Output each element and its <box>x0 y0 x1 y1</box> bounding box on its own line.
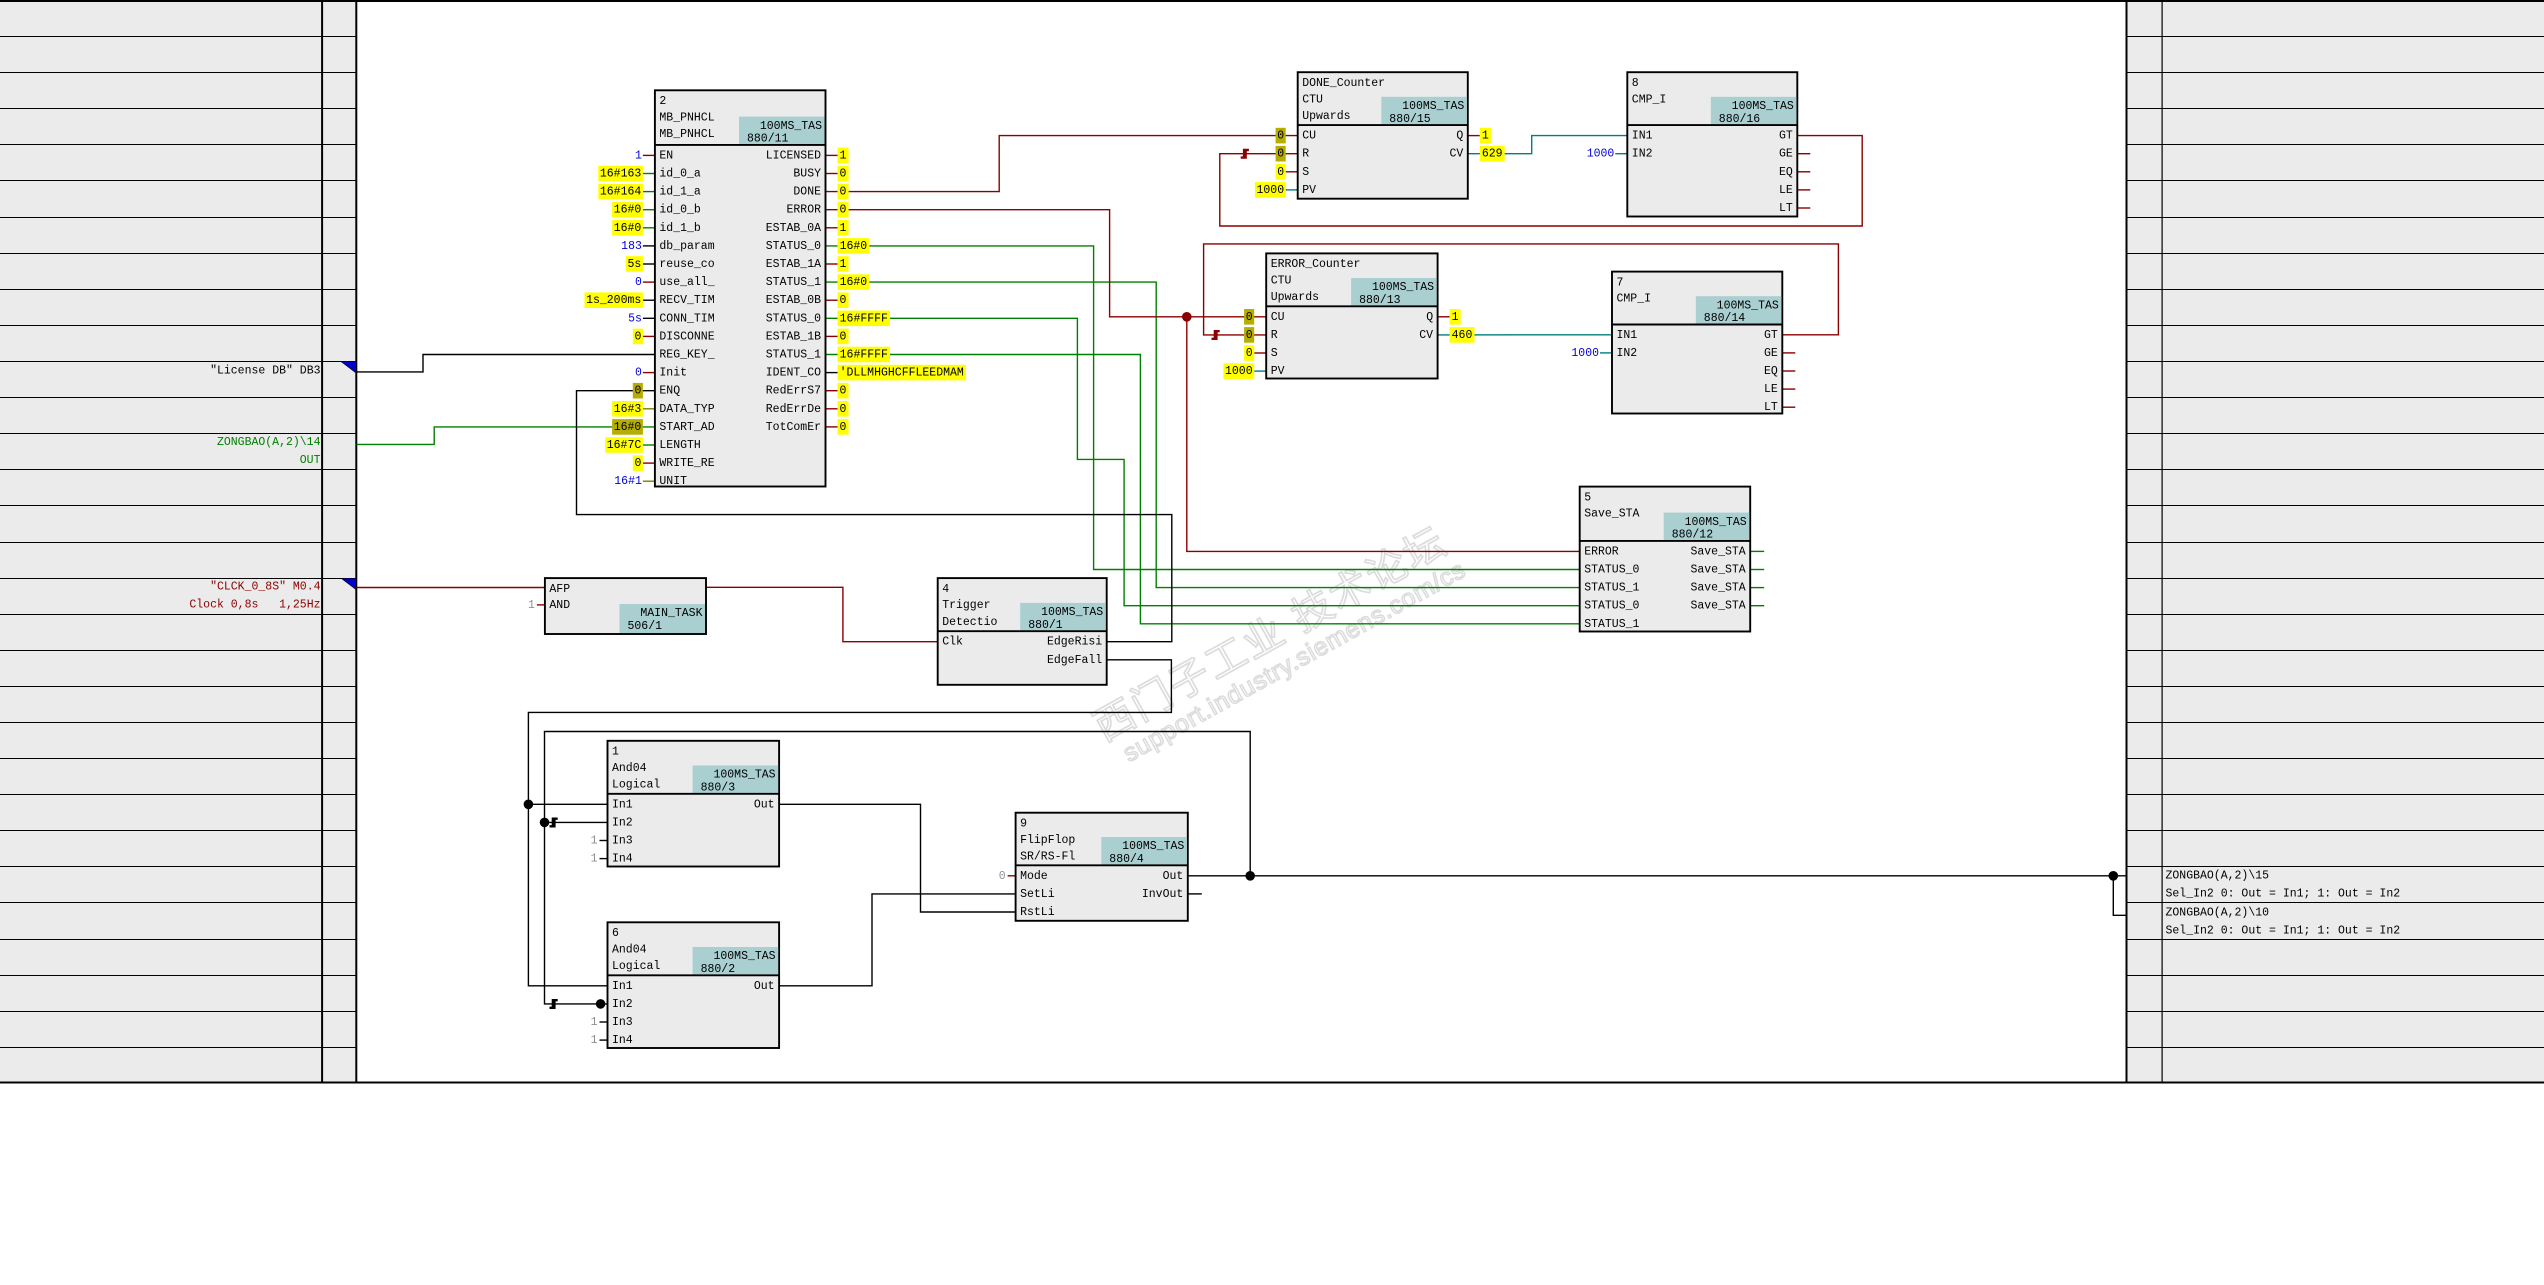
svg-text:1: 1 <box>840 222 847 235</box>
svg-text:CONN_TIM: CONN_TIM <box>659 312 714 325</box>
svg-text:ERROR_Counter: ERROR_Counter <box>1271 258 1361 271</box>
svg-text:EQ: EQ <box>1764 365 1778 378</box>
svg-text:8: 8 <box>1632 77 1639 90</box>
svg-text:Save_STA: Save_STA <box>1690 545 1745 558</box>
svg-text:InvOut: InvOut <box>1142 888 1183 901</box>
svg-text:IN1: IN1 <box>1632 130 1653 143</box>
svg-text:STATUS_0: STATUS_0 <box>1584 564 1639 577</box>
function block 2 MB_PNHCL <box>655 90 826 488</box>
value id_0_a 16#163 <box>598 166 643 182</box>
svg-text:id_1_b: id_1_b <box>659 222 701 235</box>
svg-text:0: 0 <box>840 168 847 181</box>
stub ERROR_Counter.S <box>1254 352 1266 354</box>
wire STATUS_1 (16#FFFF) to Save_STA.STATUS_1 <box>826 355 1580 624</box>
stub reuse_co <box>643 263 655 265</box>
stub FlipFlop.Mode <box>1008 875 1016 877</box>
svg-text:In1: In1 <box>612 980 633 993</box>
stub CMP_I7.IN2 <box>1600 352 1612 354</box>
svg-text:0: 0 <box>1246 329 1253 342</box>
stubs CMP_I7 GE EQ LE LT <box>1782 353 1795 407</box>
svg-text:CMP_I: CMP_I <box>1632 93 1667 106</box>
svg-text:183: 183 <box>621 240 642 253</box>
svg-text:0: 0 <box>634 330 641 343</box>
wire License DB margin to REG_KEY_ <box>356 355 655 372</box>
svg-text:16#164: 16#164 <box>600 186 642 199</box>
stub UNIT <box>643 480 655 482</box>
svg-text:db_param: db_param <box>659 240 714 253</box>
wire STATUS_0 (16#0) to Save_STA.STATUS_0 <box>826 246 1580 570</box>
svg-text:CMP_I: CMP_I <box>1617 293 1652 306</box>
svg-text:UNIT: UNIT <box>659 475 687 488</box>
svg-text:And04: And04 <box>612 762 647 775</box>
stub CONN_TIM <box>643 317 655 319</box>
svg-text:ENQ: ENQ <box>659 385 680 398</box>
svg-text:IDENT_CO: IDENT_CO <box>766 367 821 380</box>
value LICENSED 1 <box>838 148 849 164</box>
svg-text:0: 0 <box>840 294 847 307</box>
svg-text:16#0: 16#0 <box>840 276 868 289</box>
svg-text:LT: LT <box>1764 401 1778 414</box>
svg-text:ESTAB_0A: ESTAB_0A <box>766 222 821 235</box>
svg-text:DONE: DONE <box>793 186 821 199</box>
junction dot In2 And04 6 <box>596 999 606 1009</box>
stub ERROR_Counter.Q <box>1438 316 1450 318</box>
svg-text:880/14: 880/14 <box>1704 312 1746 325</box>
tick marker DONE_Counter.R <box>1241 149 1249 159</box>
sheetbar triangle License DB <box>341 362 356 374</box>
wire ZONGBAO margin to START_AD <box>356 427 655 445</box>
svg-text:BUSY: BUSY <box>793 168 821 181</box>
value ESTAB_0A 1 <box>838 220 849 236</box>
svg-text:880/2: 880/2 <box>701 963 736 976</box>
value START_AD 16#0 <box>612 419 643 435</box>
svg-text:In3: In3 <box>612 1016 633 1029</box>
svg-text:In3: In3 <box>612 835 633 848</box>
svg-text:506/1: 506/1 <box>628 620 663 633</box>
svg-text:START_AD: START_AD <box>659 421 714 434</box>
svg-text:S: S <box>1302 166 1309 179</box>
svg-text:100MS_TAS: 100MS_TAS <box>713 769 775 782</box>
svg-text:CU: CU <box>1302 130 1316 143</box>
svg-text:Save_STA: Save_STA <box>1690 564 1745 577</box>
svg-text:LENGTH: LENGTH <box>659 439 700 452</box>
svg-text:0: 0 <box>634 457 641 470</box>
value id_1_b 16#0 <box>612 220 643 236</box>
svg-text:0: 0 <box>635 367 642 380</box>
svg-text:GT: GT <box>1779 130 1793 143</box>
svg-text:0: 0 <box>840 403 847 416</box>
svg-text:0: 0 <box>999 870 1006 883</box>
wire CMP_I7.GT feedback to ERROR_Counter.R <box>1204 244 1839 335</box>
svg-text:100MS_TAS: 100MS_TAS <box>1122 840 1184 853</box>
svg-text:And04: And04 <box>612 943 647 956</box>
svg-text:In4: In4 <box>612 1034 633 1047</box>
svg-text:ESTAB_1B: ESTAB_1B <box>766 330 821 343</box>
svg-text:LT: LT <box>1779 202 1793 215</box>
svg-text:SetLi: SetLi <box>1020 888 1055 901</box>
svg-text:IN2: IN2 <box>1617 347 1638 360</box>
stub id_0_a <box>643 173 655 175</box>
stub id_0_b <box>643 209 655 211</box>
svg-text:1s_200ms: 1s_200ms <box>586 294 641 307</box>
svg-text:IN2: IN2 <box>1632 148 1653 161</box>
value LENGTH 16#7C <box>605 437 643 453</box>
svg-text:RedErrS7: RedErrS7 <box>766 385 821 398</box>
svg-text:AND: AND <box>549 599 570 612</box>
stub FlipFlop.InvOut <box>1188 893 1202 895</box>
tick marker And04-6 In2 <box>550 999 558 1009</box>
svg-text:16#0: 16#0 <box>614 222 642 235</box>
svg-text:IN1: IN1 <box>1617 329 1638 342</box>
svg-text:5: 5 <box>1584 491 1591 504</box>
svg-text:4: 4 <box>942 583 949 596</box>
svg-text:0: 0 <box>1277 130 1284 143</box>
svg-text:TotComEr: TotComEr <box>766 421 821 434</box>
svg-text:2: 2 <box>659 95 666 108</box>
wire ERROR_Counter.CV to CMP_I7.IN1 <box>1438 334 1612 336</box>
value ESTAB_1A 1 <box>838 256 849 272</box>
value id_0_b 16#0 <box>612 202 643 218</box>
svg-text:100MS_TAS: 100MS_TAS <box>1732 100 1794 113</box>
svg-text:ESTAB_0B: ESTAB_0B <box>766 294 821 307</box>
left margin column <box>0 1 356 1083</box>
value IDENT_CO 'DLLMHGHCFFLEEDMAM <box>838 365 966 381</box>
svg-text:Save_STA: Save_STA <box>1690 582 1745 595</box>
svg-text:STATUS_1: STATUS_1 <box>766 276 821 289</box>
stub WRITE_RE <box>643 462 655 464</box>
svg-text:R: R <box>1271 329 1278 342</box>
wire Trigger.EdgeRisi to ENQ <box>577 391 1172 642</box>
junction dot FlipFlop.Out <box>1245 871 1255 881</box>
svg-text:DATA_TYP: DATA_TYP <box>659 403 714 416</box>
stubs MB_PNHCL outputs red <box>826 155 838 427</box>
svg-text:1: 1 <box>612 746 619 759</box>
svg-text:Q: Q <box>1426 311 1433 324</box>
svg-text:880/15: 880/15 <box>1389 113 1431 126</box>
margin grid lines <box>0 37 2544 1048</box>
function block ERROR_Counter CTU <box>1266 253 1437 378</box>
sheetbar triangle CLCK <box>341 578 356 590</box>
function block DONE_Counter CTU <box>1298 72 1468 199</box>
svg-text:PV: PV <box>1302 184 1316 197</box>
svg-text:GE: GE <box>1764 347 1778 360</box>
value reuse_co 5s <box>626 256 643 272</box>
function block 8 CMP_I <box>1627 72 1797 216</box>
svg-text:"License DB" DB3: "License DB" DB3 <box>210 365 321 378</box>
svg-text:R: R <box>1302 148 1309 161</box>
svg-text:GE: GE <box>1779 148 1793 161</box>
svg-text:Q: Q <box>1456 130 1463 143</box>
svg-text:MB_PNHCL: MB_PNHCL <box>659 128 714 141</box>
wire CMP_I8.GT feedback to DONE_Counter.R <box>1220 136 1862 226</box>
svg-text:In4: In4 <box>612 853 633 866</box>
function block 7 CMP_I <box>1612 272 1782 415</box>
value ENQ 0 <box>633 383 643 399</box>
value WRITE_RE 0 <box>633 455 643 471</box>
svg-text:9: 9 <box>1020 817 1027 830</box>
svg-text:880/4: 880/4 <box>1109 853 1144 866</box>
svg-text:1000: 1000 <box>1256 184 1284 197</box>
svg-text:0: 0 <box>1277 166 1284 179</box>
value id_1_a 16#164 <box>598 184 643 200</box>
svg-text:LICENSED: LICENSED <box>766 149 821 162</box>
svg-text:STATUS_0: STATUS_0 <box>766 312 821 325</box>
svg-text:S: S <box>1271 347 1278 360</box>
svg-text:16#3: 16#3 <box>614 403 642 416</box>
svg-text:880/13: 880/13 <box>1359 294 1401 307</box>
svg-text:1000: 1000 <box>1587 148 1615 161</box>
svg-text:880/16: 880/16 <box>1719 113 1761 126</box>
svg-text:5s: 5s <box>627 258 641 271</box>
svg-text:880/1: 880/1 <box>1028 619 1063 632</box>
stub use_all_ <box>643 281 655 283</box>
svg-text:16#0: 16#0 <box>840 240 868 253</box>
svg-text:Trigger: Trigger <box>942 599 990 612</box>
svg-text:DISCONNE: DISCONNE <box>659 330 714 343</box>
svg-text:PV: PV <box>1271 365 1285 378</box>
svg-text:16#0: 16#0 <box>614 204 642 217</box>
junction dot ERROR branch <box>1182 312 1192 322</box>
junction dot Out feedback In2 <box>540 818 550 828</box>
tick marker ERROR_Counter.R <box>1212 330 1220 340</box>
svg-text:FlipFlop: FlipFlop <box>1020 834 1075 847</box>
function block 1 And04 Logical <box>608 741 780 867</box>
svg-text:16#163: 16#163 <box>600 168 642 181</box>
svg-text:Init: Init <box>659 367 687 380</box>
value ERROR_Counter CV 460 <box>1450 327 1475 343</box>
svg-text:RECV_TIM: RECV_TIM <box>659 294 714 307</box>
svg-text:MB_PNHCL: MB_PNHCL <box>659 111 714 124</box>
value STATUS_1 16#0 <box>838 274 870 290</box>
stub ERROR_Counter.PV <box>1254 370 1266 372</box>
value DONE 0 <box>838 184 849 200</box>
wire DONE_Counter.CV to CMP_I8.IN1 <box>1468 136 1628 154</box>
svg-text:'DLLMHGHCFFLEEDMAM: 'DLLMHGHCFFLEEDMAM <box>840 367 964 380</box>
svg-text:Sel_In2 0: Out = In1; 1: Out =: Sel_In2 0: Out = In1; 1: Out = In2 <box>2166 925 2401 938</box>
svg-text:Out: Out <box>754 798 775 811</box>
svg-text:Detectio: Detectio <box>942 616 997 629</box>
svg-text:Sel_In2 0: Out = In1; 1: Out =: Sel_In2 0: Out = In1; 1: Out = In2 <box>2166 888 2401 901</box>
stub RECV_TIM <box>643 299 655 301</box>
svg-text:ERROR: ERROR <box>1584 545 1619 558</box>
svg-text:100MS_TAS: 100MS_TAS <box>760 120 822 133</box>
stub DONE_Counter.Q <box>1468 135 1480 137</box>
svg-text:0: 0 <box>1246 311 1253 324</box>
svg-text:1: 1 <box>840 258 847 271</box>
tick marker And04-1 In2 <box>550 818 558 828</box>
svg-text:Save_STA: Save_STA <box>1690 600 1745 613</box>
svg-text:1000: 1000 <box>1225 365 1253 378</box>
value ESTAB_0B 0 <box>838 292 849 308</box>
svg-text:ESTAB_1A: ESTAB_1A <box>766 258 821 271</box>
svg-text:0: 0 <box>840 385 847 398</box>
svg-text:"CLCK_0_8S" M0.4: "CLCK_0_8S" M0.4 <box>210 581 321 594</box>
svg-text:Out: Out <box>1163 870 1184 883</box>
wire CLCK margin to AFP <box>356 587 545 589</box>
svg-text:Logical: Logical <box>612 960 660 973</box>
svg-text:LE: LE <box>1764 383 1778 396</box>
svg-text:6: 6 <box>612 927 619 940</box>
svg-text:EdgeFall: EdgeFall <box>1047 654 1102 667</box>
svg-text:1: 1 <box>635 149 642 162</box>
svg-text:Upwards: Upwards <box>1271 291 1319 304</box>
stubs Save_STA outputs <box>1750 551 1764 605</box>
value STATUS_0 16#0 <box>838 238 870 254</box>
svg-text:0: 0 <box>635 276 642 289</box>
svg-text:EN: EN <box>659 149 673 162</box>
svg-text:16#7C: 16#7C <box>607 439 642 452</box>
svg-text:100MS_TAS: 100MS_TAS <box>713 950 775 963</box>
wire Trigger.EdgeFall to And04 In1 pins <box>528 660 1171 986</box>
svg-text:id_0_a: id_0_a <box>659 168 701 181</box>
svg-text:STATUS_1: STATUS_1 <box>1584 582 1639 595</box>
svg-text:STATUS_1: STATUS_1 <box>1584 618 1639 631</box>
svg-text:EdgeRisi: EdgeRisi <box>1047 636 1102 649</box>
value BUSY 0 <box>838 166 849 182</box>
value ERROR_Counter Q 1 <box>1450 309 1461 325</box>
value STATUS_0 16#FFFF <box>838 311 891 327</box>
svg-text:GT: GT <box>1764 329 1778 342</box>
main canvas area <box>357 2 2125 1082</box>
watermark siemens forum <box>1087 518 1470 774</box>
svg-text:5s: 5s <box>628 312 642 325</box>
svg-text:OUT: OUT <box>300 454 321 467</box>
svg-text:RstLi: RstLi <box>1020 906 1055 919</box>
svg-text:In2: In2 <box>612 816 633 829</box>
function block 6 And04 Logical <box>608 922 780 1048</box>
stubs CMP_I8 GE EQ LE LT <box>1797 154 1810 208</box>
wire And04-1.Out to FlipFlop.RstLi <box>779 804 1016 912</box>
svg-text:RedErrDe: RedErrDe <box>766 403 821 416</box>
svg-text:ZONGBAO(A,2)\10: ZONGBAO(A,2)\10 <box>2166 907 2270 920</box>
wire branch to margin ZONGBAO10 <box>2113 876 2126 916</box>
svg-text:MAIN_TASK: MAIN_TASK <box>640 607 702 620</box>
svg-text:1: 1 <box>591 853 598 866</box>
svg-text:STATUS_0: STATUS_0 <box>766 240 821 253</box>
svg-text:EQ: EQ <box>1779 166 1793 179</box>
svg-text:0: 0 <box>840 421 847 434</box>
value ERROR_Counter R 0 <box>1244 327 1254 343</box>
value RECV_TIM 1s_200ms <box>585 292 643 308</box>
svg-text:Save_STA: Save_STA <box>1584 508 1639 521</box>
junction dot margin branch <box>2109 871 2119 881</box>
stub DATA_TYP <box>643 408 655 410</box>
right margin column <box>2127 1 2544 1083</box>
svg-text:id_1_a: id_1_a <box>659 186 701 199</box>
svg-text:1: 1 <box>840 149 847 162</box>
wire DONE to DONE_Counter.CU <box>826 136 1298 192</box>
stub CMP_I8.IN2 <box>1615 153 1627 155</box>
svg-text:1000: 1000 <box>1571 347 1599 360</box>
svg-text:REG_KEY_: REG_KEY_ <box>659 349 714 362</box>
svg-text:In1: In1 <box>612 798 633 811</box>
function block AFP AND gate <box>545 578 706 634</box>
wire AFP out to Trigger.Clk <box>706 587 938 641</box>
svg-text:Logical: Logical <box>612 779 660 792</box>
svg-text:AFP: AFP <box>549 583 570 596</box>
svg-text:0: 0 <box>1246 347 1253 360</box>
svg-text:100MS_TAS: 100MS_TAS <box>1041 606 1103 619</box>
svg-text:1: 1 <box>1482 130 1489 143</box>
stubs And04 In3 In4 <box>600 841 608 1041</box>
value ERROR 0 <box>838 202 849 218</box>
svg-text:CV: CV <box>1419 329 1433 342</box>
svg-text:0: 0 <box>840 330 847 343</box>
svg-text:Upwards: Upwards <box>1302 110 1350 123</box>
svg-text:ZONGBAO(A,2)\14: ZONGBAO(A,2)\14 <box>217 436 321 449</box>
svg-text:CTU: CTU <box>1271 275 1292 288</box>
svg-text:1: 1 <box>1452 311 1459 324</box>
value DONE_Counter CV 629 <box>1480 146 1505 162</box>
function block 5 Save_STA <box>1580 487 1751 632</box>
svg-text:7: 7 <box>1617 276 1624 289</box>
svg-text:CV: CV <box>1449 148 1463 161</box>
svg-text:Clk: Clk <box>942 636 963 649</box>
stub EN <box>643 154 655 156</box>
value RedErrS7 0 <box>838 383 849 399</box>
svg-text:Out: Out <box>754 980 775 993</box>
value DONE_Counter CU 0 <box>1276 128 1286 144</box>
stub id_1_a <box>643 191 655 193</box>
value RedErrDe 0 <box>838 401 849 417</box>
value DONE_Counter PV 1000 <box>1255 182 1286 198</box>
wire ERROR to ERROR_Counter.CU and Save_STA.ERROR <box>826 210 1267 317</box>
value DONE_Counter R 0 <box>1276 146 1286 162</box>
svg-text:1: 1 <box>591 835 598 848</box>
svg-text:Clock 0,8s 1,25Hz: Clock 0,8s 1,25Hz <box>189 599 320 612</box>
svg-text:100MS_TAS: 100MS_TAS <box>1685 516 1747 529</box>
value DONE_Counter S 0 <box>1276 164 1286 180</box>
stub DONE_Counter.S <box>1286 171 1298 173</box>
svg-text:0: 0 <box>634 385 641 398</box>
svg-text:In2: In2 <box>612 998 633 1011</box>
value ERROR_Counter CU 0 <box>1244 309 1254 325</box>
svg-text:16#FFFF: 16#FFFF <box>840 312 888 325</box>
svg-text:LE: LE <box>1779 184 1793 197</box>
value ESTAB_1B 0 <box>838 329 849 345</box>
svg-text:0: 0 <box>1277 148 1284 161</box>
svg-text:880/3: 880/3 <box>701 782 736 795</box>
stub IDENT_CO <box>826 372 838 374</box>
svg-text:880/11: 880/11 <box>747 133 789 146</box>
svg-text:0: 0 <box>840 186 847 199</box>
svg-text:ERROR: ERROR <box>786 204 821 217</box>
svg-text:SR/RS-Fl: SR/RS-Fl <box>1020 850 1075 863</box>
junction dot EdgeFall to In1 <box>524 800 534 810</box>
svg-text:629: 629 <box>1482 148 1503 161</box>
svg-text:460: 460 <box>1452 329 1473 342</box>
stub Init <box>643 372 655 374</box>
value DATA_TYP 16#3 <box>612 401 643 417</box>
svg-text:100MS_TAS: 100MS_TAS <box>1717 299 1779 312</box>
svg-text:reuse_co: reuse_co <box>659 258 714 271</box>
function block 4 Trigger Detection <box>938 578 1107 685</box>
svg-text:0: 0 <box>840 204 847 217</box>
svg-text:CTU: CTU <box>1302 93 1323 106</box>
svg-text:1: 1 <box>591 1016 598 1029</box>
svg-text:1: 1 <box>528 599 535 612</box>
svg-text:ZONGBAO(A,2)\15: ZONGBAO(A,2)\15 <box>2166 870 2270 883</box>
value TotComEr 0 <box>838 419 849 435</box>
stub DISCONNE <box>643 335 655 337</box>
wire And04-6.Out to FlipFlop.SetLi <box>779 894 1016 986</box>
svg-text:880/12: 880/12 <box>1672 529 1714 542</box>
wire FlipFlop.Out feedback to And04 In2 pins <box>545 732 1251 1004</box>
wire STATUS_1 (16#0) to Save_STA.STATUS_1 <box>826 282 1580 587</box>
stub AFP AND input 1 <box>537 604 545 606</box>
function block 9 FlipFlop SR/RS <box>1016 813 1188 921</box>
stub db_param <box>643 245 655 247</box>
